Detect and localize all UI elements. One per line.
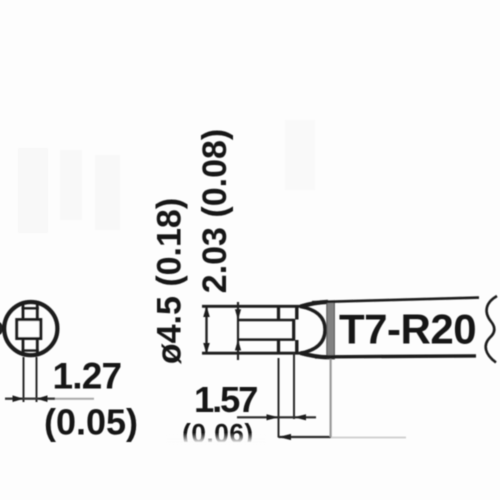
faint scan smudges bbox=[18, 120, 315, 233]
lower dim line y437 bbox=[279, 436, 332, 438]
slot band left line bbox=[22, 303, 25, 356]
extension line x294 bbox=[293, 353, 295, 419]
arrow left-tip 1.57 bbox=[294, 414, 306, 420]
body top edge bbox=[312, 298, 479, 303]
faint continuation bbox=[331, 437, 406, 439]
arrow down dia4.5 bbox=[203, 343, 210, 354]
dim line 2.03 bbox=[237, 302, 239, 360]
arrow up dia4.5 bbox=[203, 306, 210, 317]
step jog bottom bbox=[277, 339, 280, 355]
svg-text:(0.05): (0.05) bbox=[44, 402, 138, 443]
step jog top bbox=[277, 305, 280, 321]
extension line right of 1.27 bbox=[36, 357, 38, 402]
dome chord lower bbox=[295, 340, 298, 353]
dome arc bbox=[300, 307, 325, 354]
slot upper line bbox=[238, 319, 294, 322]
arrow down to slot top bbox=[235, 309, 241, 320]
dim line 1.57 bbox=[237, 416, 316, 418]
svg-text:ø4.5 (0.18): ø4.5 (0.18) bbox=[151, 198, 189, 364]
extension line left of 1.27 bbox=[23, 357, 25, 402]
tip bottom edge bbox=[202, 352, 304, 355]
dimension line 1.27 bbox=[5, 398, 55, 400]
slot end vertical bbox=[292, 319, 295, 341]
slot band right line bbox=[36, 303, 39, 356]
arrow right 1.27 bbox=[37, 395, 48, 402]
gray line x330 bbox=[330, 359, 332, 437]
flare bottom curve bbox=[301, 353, 329, 357]
arrow up to slot bottom bbox=[235, 340, 241, 351]
svg-text:1.27: 1.27 bbox=[53, 356, 122, 397]
band bottom cross line bbox=[22, 349, 39, 351]
body bottom edge bbox=[315, 356, 476, 357]
gray band bbox=[327, 302, 335, 360]
arrow at 278 pointing left bbox=[279, 434, 292, 440]
svg-text:1.57: 1.57 bbox=[194, 379, 257, 420]
extension line x278 bbox=[278, 358, 280, 438]
arrow right-tip 1.57 bbox=[267, 414, 279, 420]
flare top curve bbox=[301, 302, 329, 307]
dim line dia4.5 bbox=[205, 307, 207, 354]
clipped mark at left edge bbox=[0, 322, 3, 335]
arrow left 1.27 bbox=[13, 395, 24, 402]
band top cross line bbox=[22, 307, 39, 309]
dome chord upper bbox=[295, 307, 298, 320]
front view circle bbox=[4, 302, 57, 355]
slot lower line bbox=[238, 338, 294, 341]
svg-text:T7-R20: T7-R20 bbox=[339, 306, 476, 353]
tip top edge bbox=[202, 305, 304, 308]
break squiggle bbox=[486, 296, 497, 363]
text (0.06) clipped bbox=[182, 419, 254, 449]
slot center rect bbox=[17, 320, 41, 339]
svg-text:2.03 (0.08): 2.03 (0.08) bbox=[196, 129, 234, 293]
